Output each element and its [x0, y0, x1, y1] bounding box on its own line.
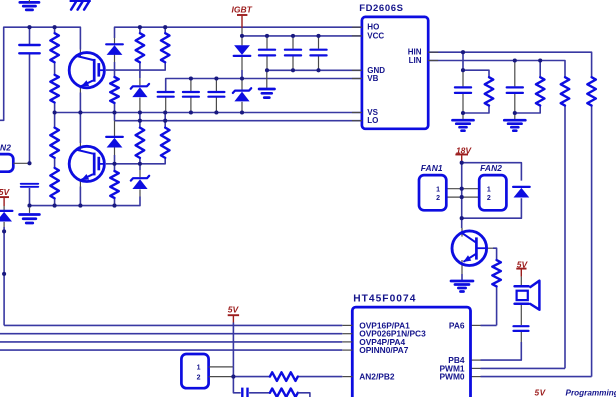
svg-text:5V: 5V	[0, 187, 11, 197]
svg-text:1: 1	[436, 187, 440, 194]
svg-text:HO: HO	[367, 23, 379, 32]
svg-text:LO: LO	[367, 116, 378, 125]
svg-text:2: 2	[487, 195, 491, 202]
svg-text:FD2606S: FD2606S	[359, 3, 403, 14]
svg-text:VB: VB	[367, 74, 378, 83]
svg-text:2: 2	[197, 374, 201, 381]
svg-text:1: 1	[487, 187, 491, 194]
svg-text:1: 1	[197, 365, 201, 372]
svg-text:2: 2	[436, 195, 440, 202]
svg-text:FAN2: FAN2	[480, 163, 502, 173]
svg-text:FAN1: FAN1	[421, 163, 443, 173]
svg-text:IGBT: IGBT	[232, 4, 253, 14]
svg-text:Programming: Programming	[566, 389, 616, 397]
svg-text:LIN: LIN	[409, 56, 422, 65]
svg-text:PA6: PA6	[449, 320, 465, 330]
svg-text:HT45F0074: HT45F0074	[353, 294, 416, 305]
svg-text:PWM0: PWM0	[439, 372, 464, 382]
svg-text:AN2/PB2: AN2/PB2	[359, 372, 395, 382]
svg-text:VCC: VCC	[367, 31, 384, 40]
svg-text:OPINN0/PA7: OPINN0/PA7	[359, 345, 409, 355]
svg-text:5V: 5V	[535, 387, 547, 397]
svg-text:FAN2: FAN2	[0, 143, 11, 153]
svg-text:5V: 5V	[228, 304, 240, 314]
